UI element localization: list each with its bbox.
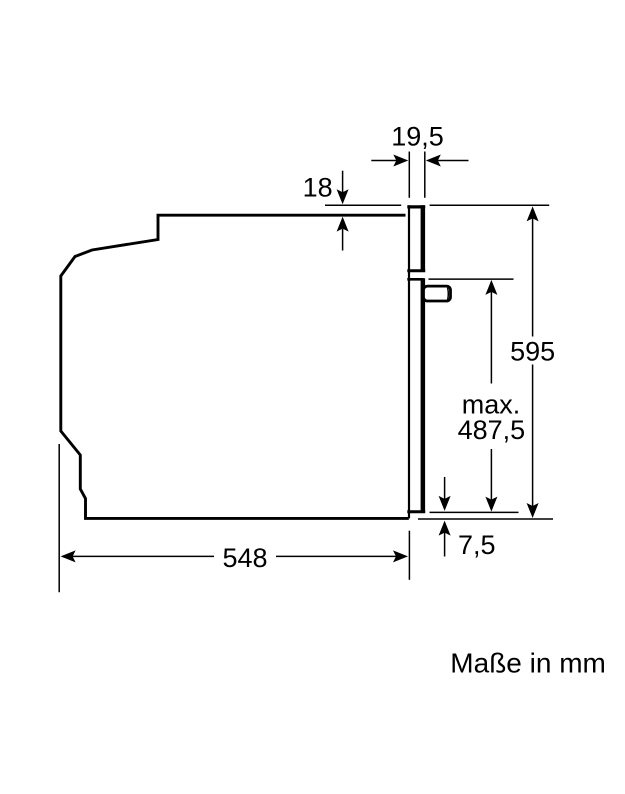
595 bottom arrowhead (527, 503, 539, 518)
548 extension line left (58, 444, 60, 592)
latch pin end cap line (447, 288, 450, 301)
frame joint notch lower line (407, 278, 423, 281)
7,5 lower reference line (418, 518, 553, 520)
frame joint notch upper line (407, 269, 425, 272)
548 dimension line right part (276, 555, 397, 557)
7,5 upper reference line (430, 511, 519, 513)
487,5 top arrowhead (485, 280, 497, 295)
svg-text:487,5: 487,5 (458, 415, 526, 445)
7,5 down arrow (444, 477, 446, 500)
487,5 dimension line upper part (490, 291, 492, 384)
svg-text:19,5: 19,5 (391, 122, 444, 152)
svg-text:Maße in mm: Maße in mm (450, 648, 606, 679)
latch pin (424, 286, 451, 301)
19,5 right arrow (438, 160, 469, 162)
487,5 bottom arrowhead (485, 497, 497, 512)
19,5 left arrow (371, 160, 397, 162)
svg-text:595: 595 (510, 337, 555, 367)
18 down arrow (342, 171, 344, 193)
door front frame top edge (407, 205, 425, 208)
19,5 extension line right (424, 152, 426, 198)
18 up arrow (342, 229, 344, 251)
548 left arrowhead (61, 550, 76, 562)
svg-text:548: 548 (222, 543, 267, 573)
595 dimension line lower part (532, 365, 534, 508)
595 dimension line upper part (532, 217, 534, 337)
door front frame bottom edge (407, 510, 425, 513)
548 extension line right (408, 531, 410, 580)
487,5 top reference line (429, 278, 514, 280)
595 top arrowhead (527, 206, 539, 221)
door front frame right edge lower (421, 278, 426, 512)
oven body outline (61, 215, 409, 518)
548 right arrowhead (393, 550, 408, 562)
7,5 up arrow (444, 532, 446, 557)
door front frame left edge (408, 205, 410, 518)
487,5 dimension line lower part (490, 449, 492, 501)
19,5 extension line left (408, 152, 410, 198)
door front frame right edge upper (421, 205, 426, 271)
top reference line right segment (430, 204, 550, 206)
top reference line left segment (325, 204, 401, 206)
548 dimension line left part (72, 555, 214, 557)
svg-text:18: 18 (303, 173, 333, 203)
svg-text:7,5: 7,5 (458, 530, 496, 560)
